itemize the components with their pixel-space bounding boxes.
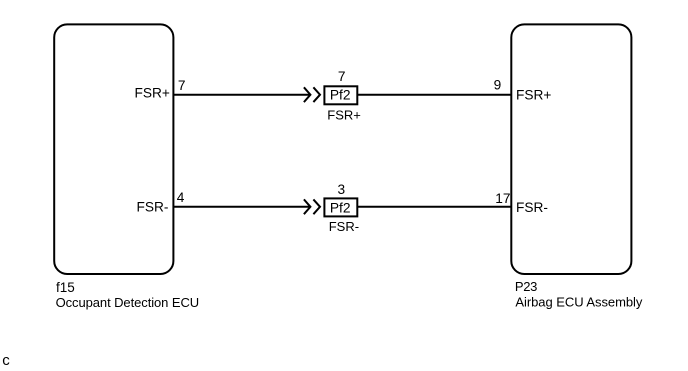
- wire FSR- from connector Pf2 to P23 pin 17: [357, 206, 512, 208]
- connector Pf2 box (FSR-): [324, 198, 357, 216]
- ECU block f15 Occupant Detection ECU: [54, 24, 173, 274]
- svg-text:17: 17: [495, 191, 510, 206]
- svg-text:Pf2: Pf2: [330, 88, 351, 103]
- svg-text:9: 9: [494, 78, 502, 93]
- svg-text:FSR+: FSR+: [516, 88, 551, 103]
- svg-text:Airbag ECU Assembly: Airbag ECU Assembly: [515, 295, 642, 310]
- svg-text:3: 3: [337, 182, 345, 197]
- svg-text:7: 7: [338, 69, 346, 84]
- connector Pf2 box (FSR+): [324, 86, 357, 104]
- ECU block P23 Airbag ECU Assembly: [511, 24, 631, 274]
- svg-text:P23: P23: [515, 279, 537, 294]
- wire FSR+ from connector Pf2 to P23 pin 9: [357, 94, 512, 96]
- svg-text:FSR-: FSR-: [329, 219, 359, 234]
- svg-text:FSR-: FSR-: [136, 199, 168, 214]
- connector chevrons on FSR+ wire: [304, 87, 320, 102]
- svg-text:Occupant Detection ECU: Occupant Detection ECU: [56, 295, 199, 310]
- svg-text:FSR+: FSR+: [135, 86, 170, 101]
- wire FSR+ from f15 pin 7 to connector Pf2: [173, 94, 310, 96]
- svg-text:FSR-: FSR-: [516, 200, 548, 215]
- svg-text:4: 4: [177, 190, 185, 205]
- svg-text:c: c: [2, 352, 10, 366]
- svg-text:f15: f15: [56, 280, 75, 295]
- connector chevrons on FSR- wire: [304, 199, 320, 214]
- wire FSR- from f15 pin 4 to connector Pf2: [173, 206, 310, 208]
- svg-text:7: 7: [178, 78, 186, 93]
- svg-text:Pf2: Pf2: [330, 200, 351, 215]
- svg-text:FSR+: FSR+: [327, 108, 361, 123]
